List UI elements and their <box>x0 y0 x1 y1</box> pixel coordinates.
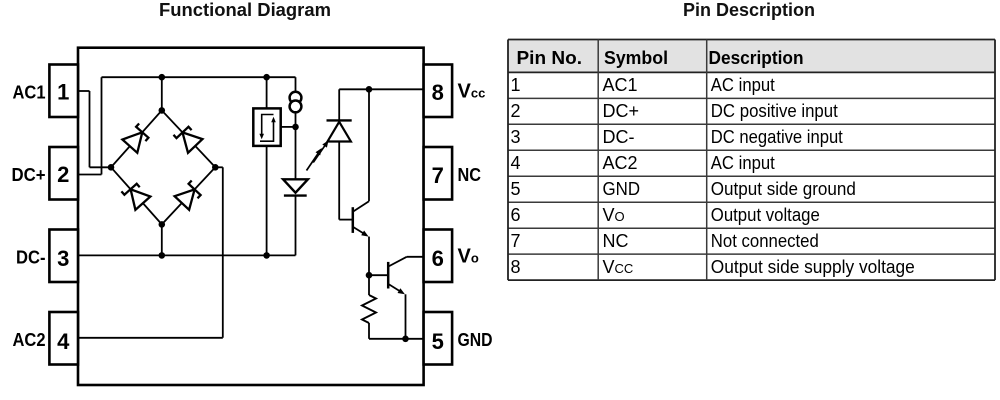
svg-text:3: 3 <box>57 246 69 271</box>
svg-text:6: 6 <box>432 246 444 271</box>
svg-text:1: 1 <box>511 75 521 95</box>
svg-text:Output side ground: Output side ground <box>711 179 856 199</box>
svg-text:AC2: AC2 <box>13 330 46 350</box>
svg-text:Pin No.: Pin No. <box>517 48 583 68</box>
svg-text:6: 6 <box>511 205 521 225</box>
svg-text:DC-: DC- <box>603 127 635 147</box>
svg-text:5: 5 <box>511 179 521 199</box>
svg-text:7: 7 <box>511 231 521 251</box>
svg-text:Description: Description <box>709 48 804 68</box>
svg-text:DC negative input: DC negative input <box>711 127 843 147</box>
svg-text:DC-: DC- <box>16 247 46 267</box>
svg-text:AC1: AC1 <box>603 75 638 95</box>
svg-text:DC+: DC+ <box>603 101 640 121</box>
svg-text:AC input: AC input <box>711 153 775 173</box>
svg-text:5: 5 <box>432 329 444 354</box>
svg-text:8: 8 <box>511 257 521 277</box>
svg-text:Output side supply voltage: Output side supply voltage <box>711 257 915 277</box>
svg-text:7: 7 <box>432 163 444 188</box>
svg-text:NC: NC <box>603 231 629 251</box>
svg-text:4: 4 <box>511 153 521 173</box>
svg-text:2: 2 <box>511 101 521 121</box>
svg-text:AC2: AC2 <box>603 153 638 173</box>
svg-text:1: 1 <box>57 80 69 105</box>
svg-text:Output voltage: Output voltage <box>711 205 820 225</box>
svg-text:NC: NC <box>458 165 482 185</box>
svg-text:8: 8 <box>432 80 444 105</box>
svg-text:Symbol: Symbol <box>604 48 668 68</box>
svg-text:3: 3 <box>511 127 521 147</box>
svg-text:4: 4 <box>57 329 70 354</box>
svg-text:AC input: AC input <box>711 75 775 95</box>
svg-text:GND: GND <box>603 179 641 199</box>
svg-text:AC1: AC1 <box>13 83 46 103</box>
svg-text:GND: GND <box>458 330 493 350</box>
svg-text:DC positive input: DC positive input <box>711 101 838 121</box>
svg-text:2: 2 <box>57 162 69 187</box>
svg-text:Not connected: Not connected <box>711 231 819 251</box>
svg-text:Pin Description: Pin Description <box>683 0 815 20</box>
svg-text:DC+: DC+ <box>12 165 46 185</box>
svg-text:Functional Diagram: Functional Diagram <box>159 0 331 20</box>
